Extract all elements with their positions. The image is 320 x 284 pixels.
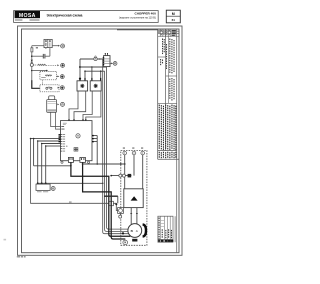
dashed assembly box	[121, 151, 147, 246]
connector cluster	[110, 174, 131, 178]
fuse F1	[31, 48, 33, 52]
PCB left pin ticks	[61, 134, 66, 152]
connector top stubs	[105, 53, 108, 56]
parts list table frame	[158, 29, 179, 253]
wire drops to transformer	[34, 139, 46, 183]
wire relay to fuse	[32, 46, 44, 48]
thick wire to contact box	[32, 80, 40, 88]
terminal circle C	[141, 151, 145, 155]
thick wire tab1 to motor	[71, 162, 130, 236]
parts list vertical text	[160, 39, 174, 101]
punch hole mark left margin	[4, 239, 7, 241]
wire terminal C down	[142, 155, 144, 189]
motor M1	[128, 224, 146, 238]
PCB left stubs labels	[61, 126, 64, 129]
wire long drop 1	[103, 59, 129, 234]
rectifier bridge 1	[77, 81, 88, 91]
callout 4	[60, 86, 64, 90]
terminal labels	[123, 148, 143, 149]
header box	[14, 11, 159, 23]
motor bottom terminal	[132, 239, 137, 242]
PCB mounting hole	[76, 134, 80, 138]
callout 8 motor	[123, 240, 128, 245]
svg-text:61: 61	[172, 18, 176, 22]
connector block J1	[103, 56, 110, 67]
junction dots on thick wires	[70, 163, 124, 234]
chopper diode box	[124, 189, 143, 208]
wire label near relay	[36, 47, 38, 48]
dashed connector between boxes	[41, 80, 43, 85]
pilot lamp circle	[94, 56, 97, 61]
aux box with circle	[118, 208, 124, 219]
wire to aux box	[113, 203, 117, 210]
thick stub band	[104, 196, 118, 203]
PCB left black pads	[59, 134, 61, 142]
rectifier thick entries	[80, 78, 101, 81]
document number bottom left	[17, 255, 26, 258]
PCB right pads	[92, 135, 94, 142]
horn wires to board	[51, 112, 61, 129]
parts list dense text block	[159, 105, 177, 159]
terminal circle A	[123, 151, 127, 155]
svg-text:(вариант исполнения на 110 В): (вариант исполнения на 110 В)	[119, 16, 156, 20]
PCB dip block	[74, 148, 78, 152]
terminal circle B	[132, 151, 136, 155]
wire long drop 3	[107, 67, 129, 229]
wire chain rect1 to pcb pin2	[74, 91, 86, 119]
transformer T1	[36, 182, 50, 192]
wire chain rect2 to pcb pin3	[83, 91, 92, 119]
wire bus lines	[30, 138, 61, 147]
wire left vertical	[31, 67, 48, 81]
wire bus to long drop 2	[84, 70, 104, 72]
wire transformer feed	[38, 183, 104, 185]
dashed box contact S2	[40, 85, 60, 92]
wire terminal B to cluster	[133, 155, 135, 176]
svg-text:MOSA: MOSA	[19, 13, 36, 19]
parts list row dividers	[158, 37, 177, 104]
capacitor C1	[32, 49, 50, 59]
callout 6 transformer	[51, 187, 55, 191]
legend table text	[159, 218, 172, 240]
svg-text:M: M	[172, 12, 175, 16]
callout 7	[113, 62, 117, 66]
wire long drop 2	[105, 71, 128, 231]
wire bus to long drop 3	[80, 66, 107, 68]
PCB inner text	[63, 123, 67, 125]
wire feed with pilot circle	[79, 58, 103, 81]
wire label tick	[69, 201, 72, 204]
outer frame	[18, 26, 183, 255]
terminal circle	[30, 63, 33, 66]
dashed row with inductor	[33, 64, 59, 66]
wire long left drop	[31, 139, 109, 204]
PCB board U1	[61, 121, 93, 161]
horn component	[47, 96, 60, 112]
PCB top pads	[68, 119, 86, 121]
callout 1	[61, 44, 65, 48]
rectifier bridge 2	[90, 81, 101, 91]
relay K1	[44, 39, 52, 49]
PCB right stubs	[94, 136, 97, 165]
wires chopper to motor	[130, 208, 138, 225]
svg-text:CHOPPER 400: CHOPPER 400	[134, 11, 156, 15]
inline connector on wire	[109, 201, 114, 205]
dashed box switch S1	[40, 71, 59, 79]
diode D1	[31, 60, 33, 64]
page number box M 61	[166, 10, 180, 23]
wire terminal A down	[124, 155, 126, 189]
wire chain rect1 to pcb pin1	[69, 91, 78, 119]
inner frame	[22, 29, 180, 253]
wire Q below pcb	[83, 163, 126, 165]
legend table	[158, 216, 175, 242]
wire relay to callout	[52, 45, 60, 47]
rectifier top wires	[85, 67, 101, 81]
svg-text:Электрическая схема: Электрическая схема	[47, 13, 83, 17]
wire connector to callout 7	[110, 63, 113, 65]
wire fuse down	[31, 52, 33, 60]
wire chain rect2 to pcb pin4	[86, 91, 101, 119]
thick wire tab2	[83, 162, 126, 239]
callout 3	[60, 75, 64, 79]
wire line below top frame	[117, 29, 158, 31]
wire P horizontal	[34, 165, 71, 167]
callout 5	[61, 102, 65, 106]
MOSA logo	[15, 11, 40, 21]
callout 2	[61, 63, 65, 67]
parts list header cells	[158, 29, 179, 37]
PCB tab connector 2	[80, 157, 86, 162]
PCB tab connector 1	[68, 157, 73, 162]
PCB bottom feet	[61, 161, 90, 163]
